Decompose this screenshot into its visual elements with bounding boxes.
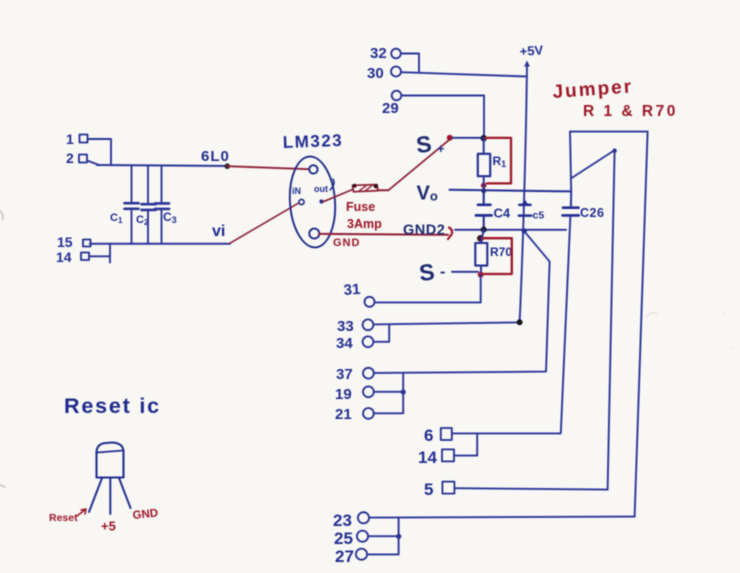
GND2 red tick — [448, 228, 452, 240]
jumper R70 end dot — [478, 272, 484, 278]
Q1 top line — [97, 451, 123, 453]
wire diagonal GND2 to pin37 column — [524, 231, 549, 261]
node pin25 junction — [396, 534, 401, 539]
jumper R1 end dot — [481, 183, 487, 189]
pin 29 terminal — [392, 91, 402, 101]
pin 23 terminal — [358, 512, 369, 523]
pin 2 terminal square — [79, 155, 87, 163]
svg-text:iN: iN — [292, 186, 301, 196]
Q1 left leg — [89, 478, 102, 512]
wire pin19 — [374, 391, 403, 393]
wire pin25 — [368, 535, 399, 537]
svg-text:LM323: LM323 — [282, 131, 343, 152]
regulator U1 LM323 can (TO-3 ellipse) — [287, 155, 338, 249]
pin 27 terminal — [356, 549, 367, 560]
node bus diagonal top — [612, 149, 616, 153]
pin 6 terminal square — [441, 428, 452, 440]
jumper wire around R70 (red) — [483, 238, 512, 274]
svg-text:27: 27 — [335, 547, 354, 566]
node pin33/+5V — [517, 319, 523, 325]
wire pin27 — [367, 518, 399, 555]
wire pin29 to center column — [402, 96, 485, 138]
svg-text:19: 19 — [335, 386, 352, 403]
capacitor C2 — [142, 166, 156, 244]
svg-text:23: 23 — [333, 511, 352, 530]
wire pin5 to column — [454, 488, 607, 489]
wire right bus top horizontal — [570, 131, 648, 133]
wire pin31 — [375, 301, 481, 303]
svg-text:15: 15 — [57, 234, 73, 250]
svg-text:S: S — [418, 259, 436, 286]
node GND2/C4 junction — [481, 227, 487, 233]
svg-text:33: 33 — [337, 318, 354, 335]
svg-text:6L0: 6L0 — [201, 148, 230, 165]
svg-text:GND: GND — [333, 237, 360, 249]
pin 31 terminal — [365, 297, 375, 307]
U1 bottom GND pin — [309, 229, 319, 239]
wire C26 column upper — [570, 191, 572, 207]
svg-text:30: 30 — [367, 65, 384, 82]
svg-text:+: + — [437, 141, 445, 156]
pin 30 terminal — [391, 67, 401, 77]
U1 out pin — [319, 199, 323, 203]
svg-text:3Amp: 3Amp — [347, 217, 382, 231]
capacitor C1 — [125, 166, 139, 244]
node GND2/+5V column junction — [522, 228, 527, 233]
U1 out pin tail — [330, 179, 334, 190]
capacitor C5 — [519, 205, 531, 216]
wire pin5 column — [608, 151, 615, 490]
wire R1 to Vo rail — [483, 176, 485, 191]
wire pin34 — [373, 325, 389, 342]
fuse F1 body — [353, 185, 379, 192]
pin 5 terminal square — [442, 482, 454, 494]
node pin19 junction — [401, 389, 406, 394]
svg-text:R70: R70 — [490, 245, 512, 259]
U1 IN pin — [299, 199, 304, 204]
resistor R1 body — [478, 154, 490, 176]
svg-text:GND2: GND2 — [403, 222, 445, 238]
faint paper marks (decorative) — [647, 313, 657, 316]
node R70 top dot — [477, 235, 484, 242]
svg-text:29: 29 — [382, 100, 399, 117]
wire vi (red) to LM323 IN — [230, 203, 299, 243]
node junction top rail — [225, 163, 231, 169]
wire C26 column to pin6 rail — [561, 216, 571, 433]
+5V arrow head — [524, 61, 530, 67]
svg-text:21: 21 — [335, 406, 352, 423]
svg-text:+5V: +5V — [519, 42, 544, 59]
svg-text:C4: C4 — [494, 206, 511, 221]
resistor R70 body — [475, 243, 487, 266]
wire bus left vertical to Vo rail — [570, 132, 571, 192]
wire pin32 — [401, 54, 419, 72]
svg-text:37: 37 — [336, 366, 353, 383]
wire U1 out to fuse (red) — [323, 190, 353, 202]
wire pin33 to +5V column — [373, 322, 519, 324]
svg-text:vi: vi — [212, 223, 225, 240]
jumper wire around R1 (red) — [486, 138, 511, 184]
wire pin6 to C26 column — [452, 432, 561, 434]
svg-text:14: 14 — [418, 448, 437, 467]
node main junction (29/S+/R1) — [481, 135, 487, 141]
wire GND rail (red) to LM323 top pin — [227, 166, 309, 169]
pin 33 terminal — [363, 319, 374, 330]
svg-text:Reset: Reset — [49, 512, 78, 524]
svg-text:c5: c5 — [533, 210, 545, 222]
svg-text:+5: +5 — [101, 519, 116, 534]
wire pin2 stub — [87, 161, 99, 166]
svg-text:1: 1 — [66, 131, 74, 147]
wire pin23 to outer bus — [369, 517, 634, 518]
node S+ dot — [447, 135, 453, 141]
pin 37 terminal — [363, 368, 374, 379]
pin 25 terminal — [357, 531, 368, 542]
wire pin21 — [374, 373, 403, 413]
svg-text:6: 6 — [424, 426, 433, 445]
wire bottom rail — [90, 243, 230, 245]
capacitor C5 top arrow — [522, 200, 529, 205]
wire S- rail — [452, 271, 478, 273]
wire Vo rail — [450, 190, 572, 192]
wire S+ to junction — [453, 137, 481, 139]
wire pin30 to +5V rail — [401, 72, 527, 76]
svg-text:2: 2 — [66, 150, 74, 166]
Q1 Reset arrow — [77, 509, 86, 516]
wire pin37 to column — [374, 262, 550, 373]
capacitor C4 — [476, 191, 492, 229]
svg-text:S: S — [415, 131, 433, 158]
svg-text:Fuse: Fuse — [346, 200, 375, 214]
wire pin14b — [454, 433, 477, 455]
wire junction to R1 — [483, 138, 485, 154]
wire GND2 rail — [455, 229, 566, 231]
svg-text:Reset ic: Reset ic — [64, 394, 161, 418]
pin 32 terminal — [391, 49, 401, 59]
wire bus diagonal — [571, 150, 615, 178]
svg-text:-: - — [440, 264, 445, 281]
svg-text:32: 32 — [370, 45, 387, 62]
fuse F1 hatching — [359, 186, 372, 192]
wire top rail — [97, 165, 227, 166]
svg-text:C26: C26 — [580, 206, 604, 220]
pin 34 terminal — [363, 336, 374, 347]
wire pin1 to node — [88, 139, 111, 164]
pin 14b terminal square — [442, 449, 454, 461]
wire outer bus vertical — [635, 132, 648, 517]
pin 21 terminal — [363, 408, 374, 419]
svg-text:14: 14 — [56, 249, 72, 265]
pin 19 terminal — [363, 386, 374, 397]
svg-text:out: out — [314, 184, 328, 194]
wire U1 GND to GND2 (red) — [320, 233, 449, 236]
wire GND2 to R70 — [481, 230, 484, 243]
svg-text:34: 34 — [336, 335, 353, 352]
pin 15 terminal square — [83, 240, 91, 247]
wire R70 to S- rail — [480, 266, 482, 272]
capacitor C26 — [563, 208, 579, 216]
svg-text:31: 31 — [343, 281, 361, 299]
U1 top pin — [309, 165, 317, 173]
svg-text:25: 25 — [334, 529, 353, 548]
wire pin14 — [89, 244, 110, 263]
transistor Q1 reset IC body — [97, 443, 124, 478]
svg-text:R 1 & R70: R 1 & R70 — [583, 103, 678, 120]
Q1 middle leg — [109, 478, 111, 514]
wire S- down to pin31 rail — [480, 275, 482, 303]
wire +5V vertical — [520, 63, 527, 322]
capacitor C3 — [155, 166, 169, 244]
wire fuse to S+ node (red diagonal) — [378, 189, 389, 191]
pin 1 terminal square — [80, 135, 88, 143]
pin 14 terminal square — [81, 253, 89, 261]
node R1/Vo junction — [481, 188, 486, 193]
Q1 right leg — [119, 478, 131, 508]
svg-text:5: 5 — [424, 480, 433, 499]
